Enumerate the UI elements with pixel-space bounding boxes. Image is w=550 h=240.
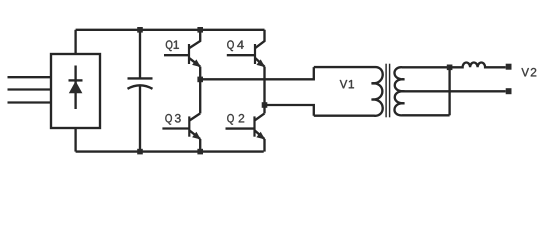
transistor Q1 base lead — [164, 54, 189, 56]
transistor Q3 emitter arrow — [192, 132, 201, 140]
wire left mid node to transformer primary top — [200, 67, 314, 79]
diode D1 cathode bar — [69, 79, 83, 81]
junction dot bottom bus / capacitor — [137, 149, 143, 155]
transistor Q1 collector — [189, 30, 200, 48]
transistor Q4 base lead — [227, 54, 255, 56]
transistor Q4 emitter — [255, 58, 265, 67]
wire left rail Q1 emitter to mid node — [199, 67, 201, 80]
transistor Q2 base lead — [226, 127, 255, 129]
transformer V1 secondary winding lower — [394, 91, 449, 115]
transistor Q2 emitter arrow — [256, 132, 265, 140]
wire left rail Q3 emitter to bottom bus — [199, 139, 201, 152]
wire top bus — [76, 29, 265, 31]
transistor Q3 base bar — [188, 116, 190, 136]
wire right rail Q4 emitter to mid node — [263, 67, 265, 105]
transistor Q3 emitter — [189, 130, 200, 139]
wire rectifier top to bus — [74, 30, 76, 54]
label Q3 — [165, 114, 180, 125]
capacitor C1 top plate — [128, 77, 153, 79]
transistor Q1 emitter arrow — [192, 59, 201, 67]
transformer V1 primary winding — [314, 67, 383, 116]
label Q4 — [227, 40, 243, 51]
label V1 — [340, 80, 354, 88]
capacitor C1 top lead — [139, 30, 141, 79]
transformer core line 2 — [389, 64, 391, 118]
wire right rail Q2 emitter to bottom bus — [263, 139, 265, 152]
wire right mid node to transformer primary bottom — [265, 105, 314, 116]
transistor Q3 collector — [189, 113, 200, 120]
transistor Q4 emitter arrow — [256, 59, 265, 67]
capacitor C1 bottom lead — [139, 85, 141, 151]
label Q1 — [166, 40, 179, 51]
transistor Q2 emitter — [255, 130, 265, 139]
junction dot bottom bus / left rail — [197, 149, 203, 155]
wire three-phase input line 3 — [8, 101, 52, 103]
transistor Q4 collector — [255, 30, 265, 48]
wire right rail mid to Q2 collector — [263, 105, 265, 113]
wire secondary top to bottom vertical — [448, 67, 450, 115]
node left mid junction dot — [197, 77, 203, 83]
transformer V1 secondary winding upper — [394, 67, 505, 91]
transistor Q3 base lead — [162, 127, 189, 129]
terminal V2 plus — [506, 64, 512, 70]
diode D1 triangle — [69, 81, 83, 93]
diode D1 vertical lead — [74, 66, 76, 110]
junction dot secondary top — [447, 65, 453, 71]
inductor L1 — [450, 63, 506, 68]
transistor Q1 base bar — [188, 44, 190, 64]
wire bottom bus — [76, 150, 264, 152]
rectifier box — [51, 54, 100, 128]
transformer core line 1 — [385, 64, 387, 118]
transistor Q4 base bar — [254, 44, 256, 64]
capacitor C1 curved plate — [128, 85, 153, 89]
label V2 — [521, 68, 536, 76]
junction dot top bus / left rail — [197, 27, 203, 33]
wire three-phase input line 2 — [8, 88, 52, 90]
wire left rail mid to Q3 collector — [199, 79, 201, 113]
junction dot top bus / capacitor — [137, 27, 143, 33]
transistor Q1 emitter — [189, 58, 200, 67]
transistor Q2 base bar — [253, 116, 255, 136]
transistor Q2 collector — [255, 113, 265, 120]
terminal V2 minus — [506, 88, 512, 94]
label Q2 — [227, 114, 244, 125]
wire rectifier bottom to bus — [74, 128, 76, 152]
wire three-phase input line 1 — [8, 76, 52, 78]
node right mid junction dot — [262, 102, 268, 108]
